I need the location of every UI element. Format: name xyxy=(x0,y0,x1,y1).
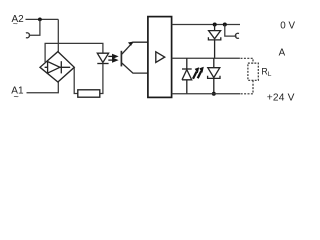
bridge inner diode D xyxy=(45,61,71,73)
wire A1 horizontal xyxy=(27,82,59,93)
zener diode Z1 xyxy=(208,25,220,59)
node dot on +24V rail xyxy=(212,92,216,96)
svg-text:A: A xyxy=(279,48,286,59)
wire load bottom dashed xyxy=(240,80,253,94)
svg-text:~: ~ xyxy=(13,19,18,29)
amplifier triangle xyxy=(156,52,165,63)
wire bridge right vertex down to resistor xyxy=(74,67,78,93)
light arrows opto xyxy=(108,55,117,62)
wire opto LED cathode down xyxy=(100,64,103,94)
clamp terminal A2 xyxy=(26,33,30,38)
bridge rectifier diamond xyxy=(40,52,74,82)
opto LED D2 xyxy=(97,53,108,63)
svg-text:~: ~ xyxy=(14,92,19,102)
clamp terminal 0V xyxy=(235,33,239,38)
svg-text:+24 V: +24 V xyxy=(267,93,295,104)
node junction dot A2 xyxy=(38,18,42,22)
wire A rail dashed to load xyxy=(241,58,254,63)
wire A rail xyxy=(172,57,240,59)
wire A2 down to bridge top xyxy=(57,19,59,51)
wire A2 horizontal xyxy=(26,18,59,20)
wire clamp stub A2 xyxy=(29,19,40,35)
wire 0V rail xyxy=(172,24,240,26)
load resistor RL dashed xyxy=(248,63,258,80)
phototransistor Q1 xyxy=(121,42,147,74)
amplifier box U1 xyxy=(148,17,172,98)
wire +24V rail xyxy=(172,93,241,95)
wire bridge tap up and right to opto LED xyxy=(45,43,103,62)
status LED D3 xyxy=(182,58,192,94)
resistor R1 xyxy=(78,90,100,97)
LED emission bolts xyxy=(193,67,204,79)
node dot on 0V rail (terminal) xyxy=(223,23,227,27)
zener diode Z2 xyxy=(208,58,220,94)
node dot on 0V rail (zener) xyxy=(213,23,217,27)
wire 0V terminal stub xyxy=(225,25,237,37)
svg-text:0 V: 0 V xyxy=(280,20,295,31)
